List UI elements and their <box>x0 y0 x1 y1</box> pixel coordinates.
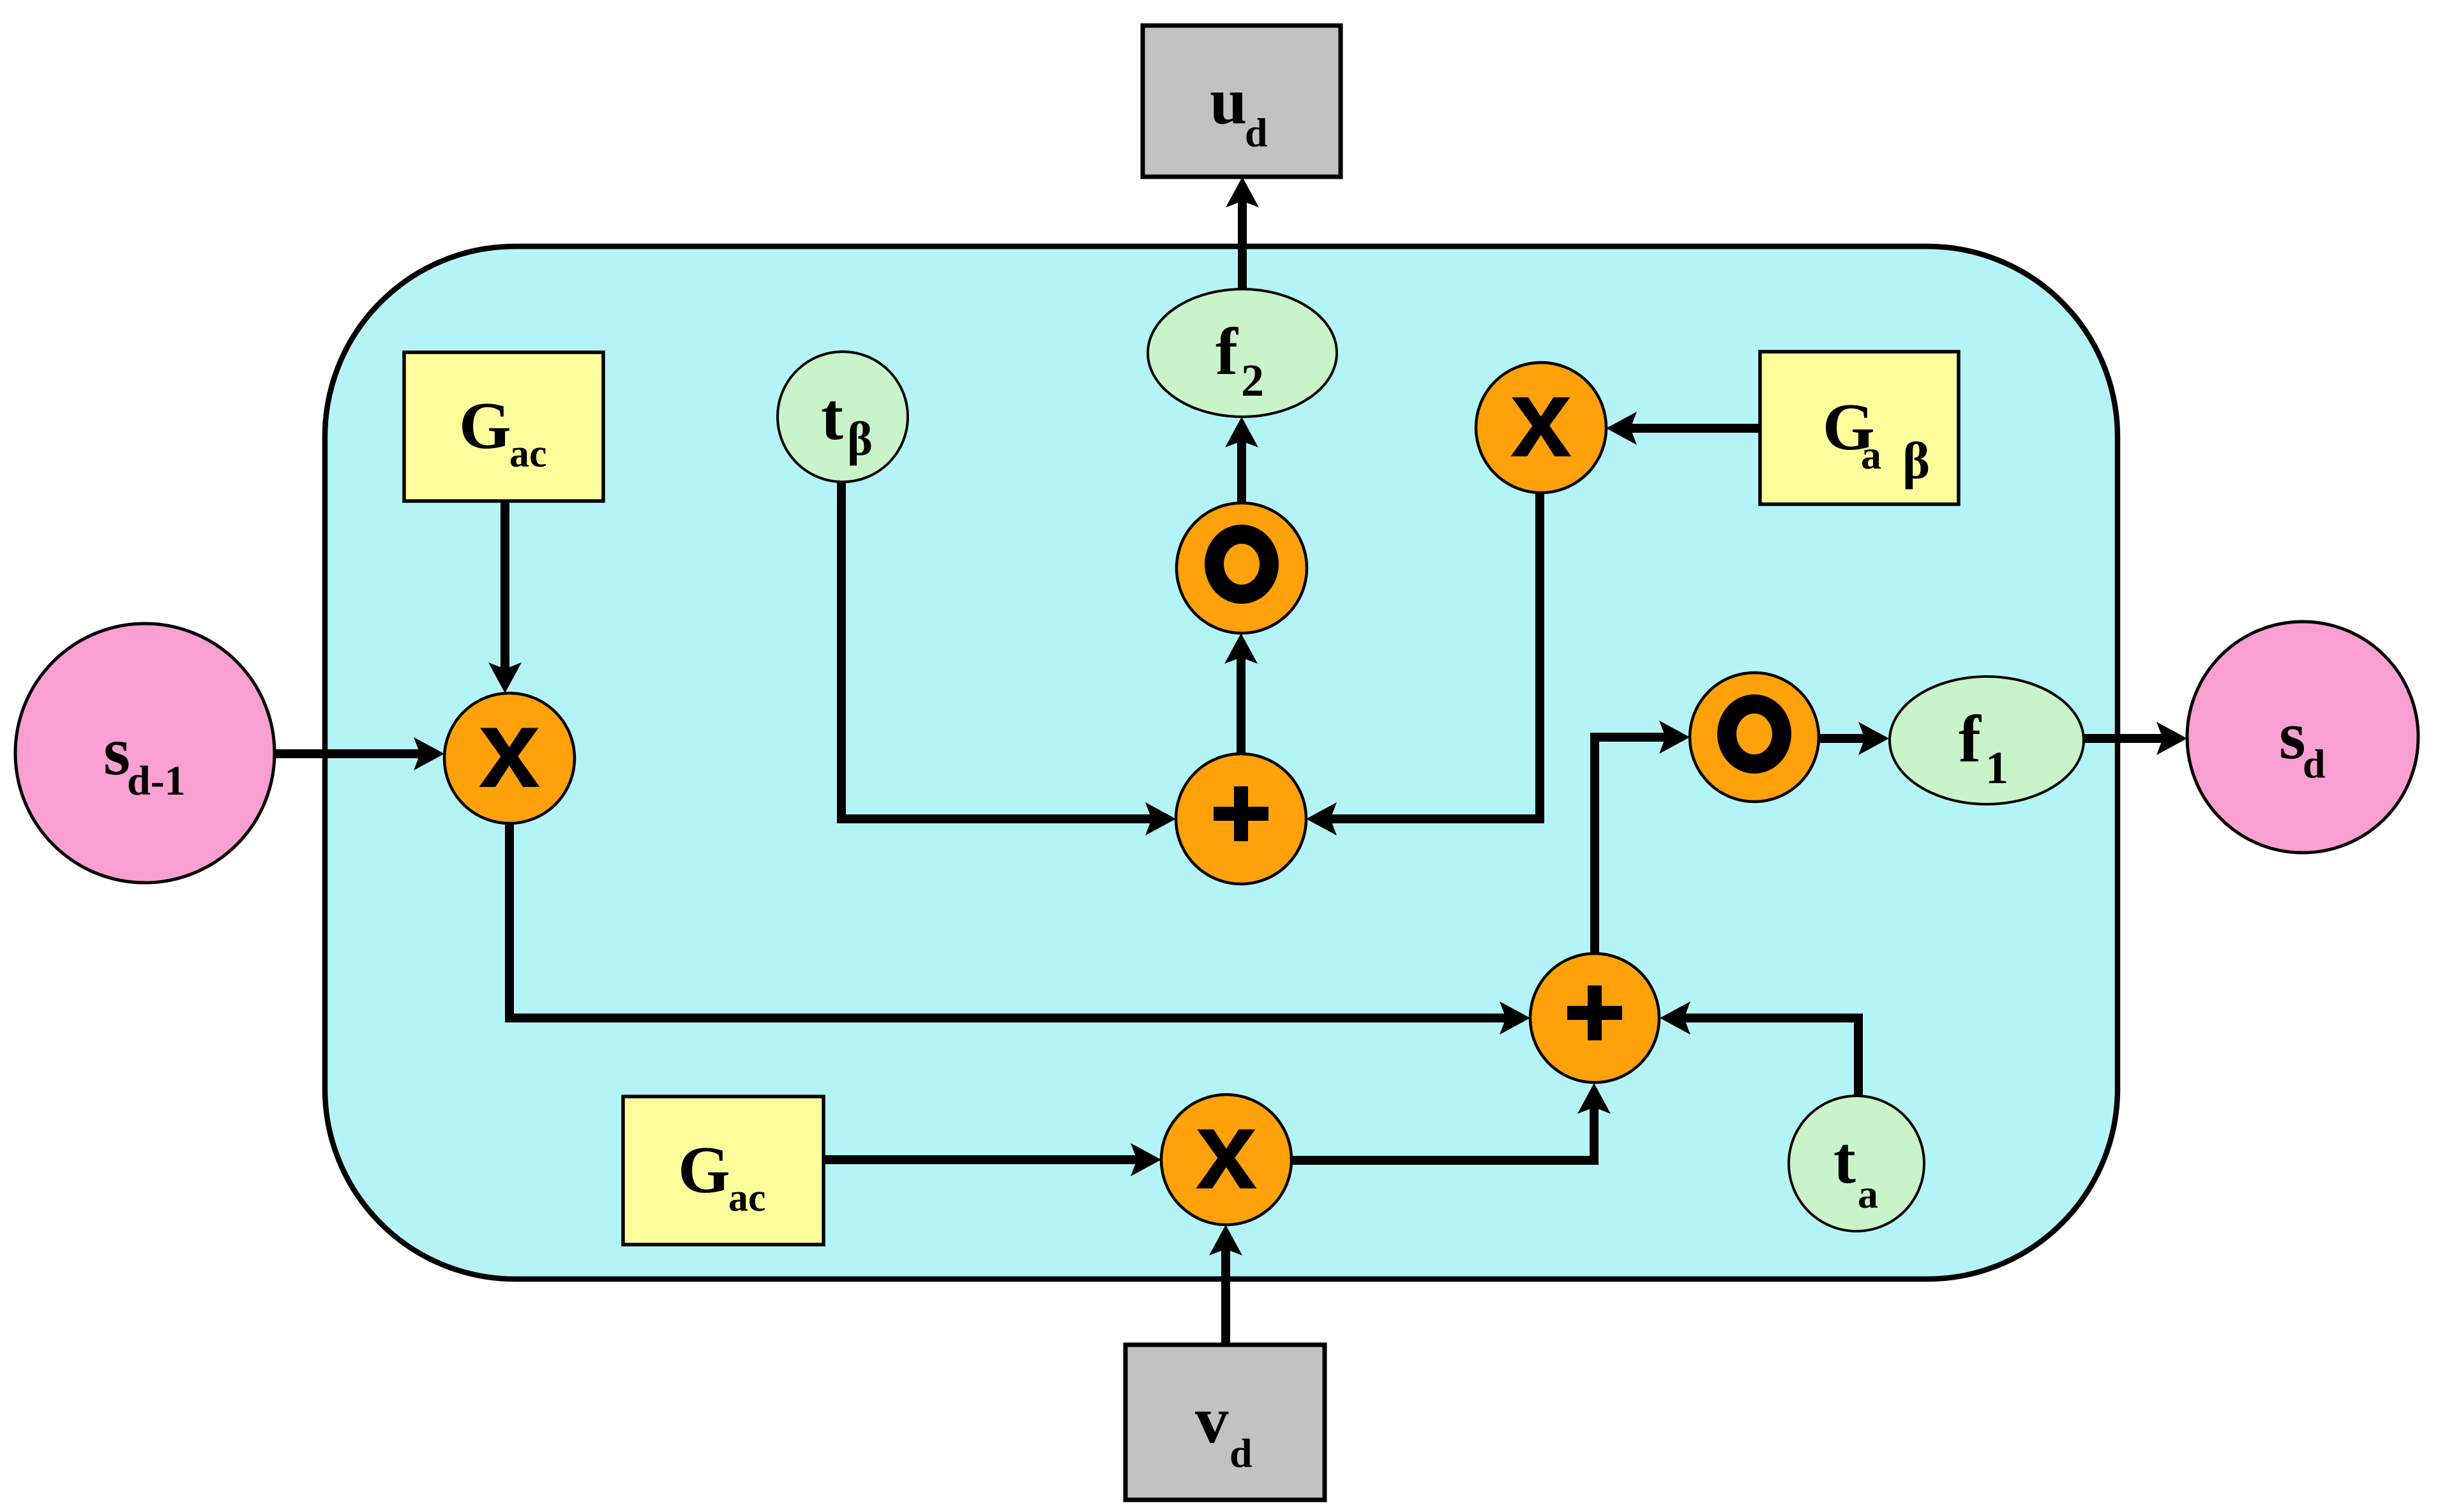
svg-text:t: t <box>1833 1123 1856 1197</box>
svg-text:f: f <box>1215 314 1238 389</box>
svg-text:G: G <box>678 1132 730 1207</box>
svg-text:t: t <box>821 379 843 454</box>
svg-text:s: s <box>2279 698 2306 774</box>
svg-text:a: a <box>1858 1171 1878 1216</box>
svg-text:ac: ac <box>509 432 547 475</box>
svg-text:s: s <box>103 714 130 790</box>
svg-text:d: d <box>1245 110 1268 155</box>
svg-text:1: 1 <box>1985 742 2008 793</box>
svg-text:u: u <box>1210 63 1247 138</box>
svg-text:d: d <box>2303 741 2326 786</box>
svg-text:a: a <box>1861 432 1881 477</box>
svg-text:ac: ac <box>728 1176 766 1220</box>
svg-text:d-1: d-1 <box>127 758 186 804</box>
svg-text:β: β <box>847 412 873 466</box>
svg-text:2: 2 <box>1241 355 1264 406</box>
svg-text:d: d <box>1230 1430 1253 1476</box>
svg-text:x: x <box>478 687 540 811</box>
svg-text:G: G <box>459 388 511 463</box>
svg-text:x: x <box>1510 356 1572 481</box>
svg-text:x: x <box>1195 1088 1257 1213</box>
svg-text:β: β <box>1902 431 1930 490</box>
svg-text:f: f <box>1959 701 1982 776</box>
svg-text:v: v <box>1195 1382 1229 1457</box>
